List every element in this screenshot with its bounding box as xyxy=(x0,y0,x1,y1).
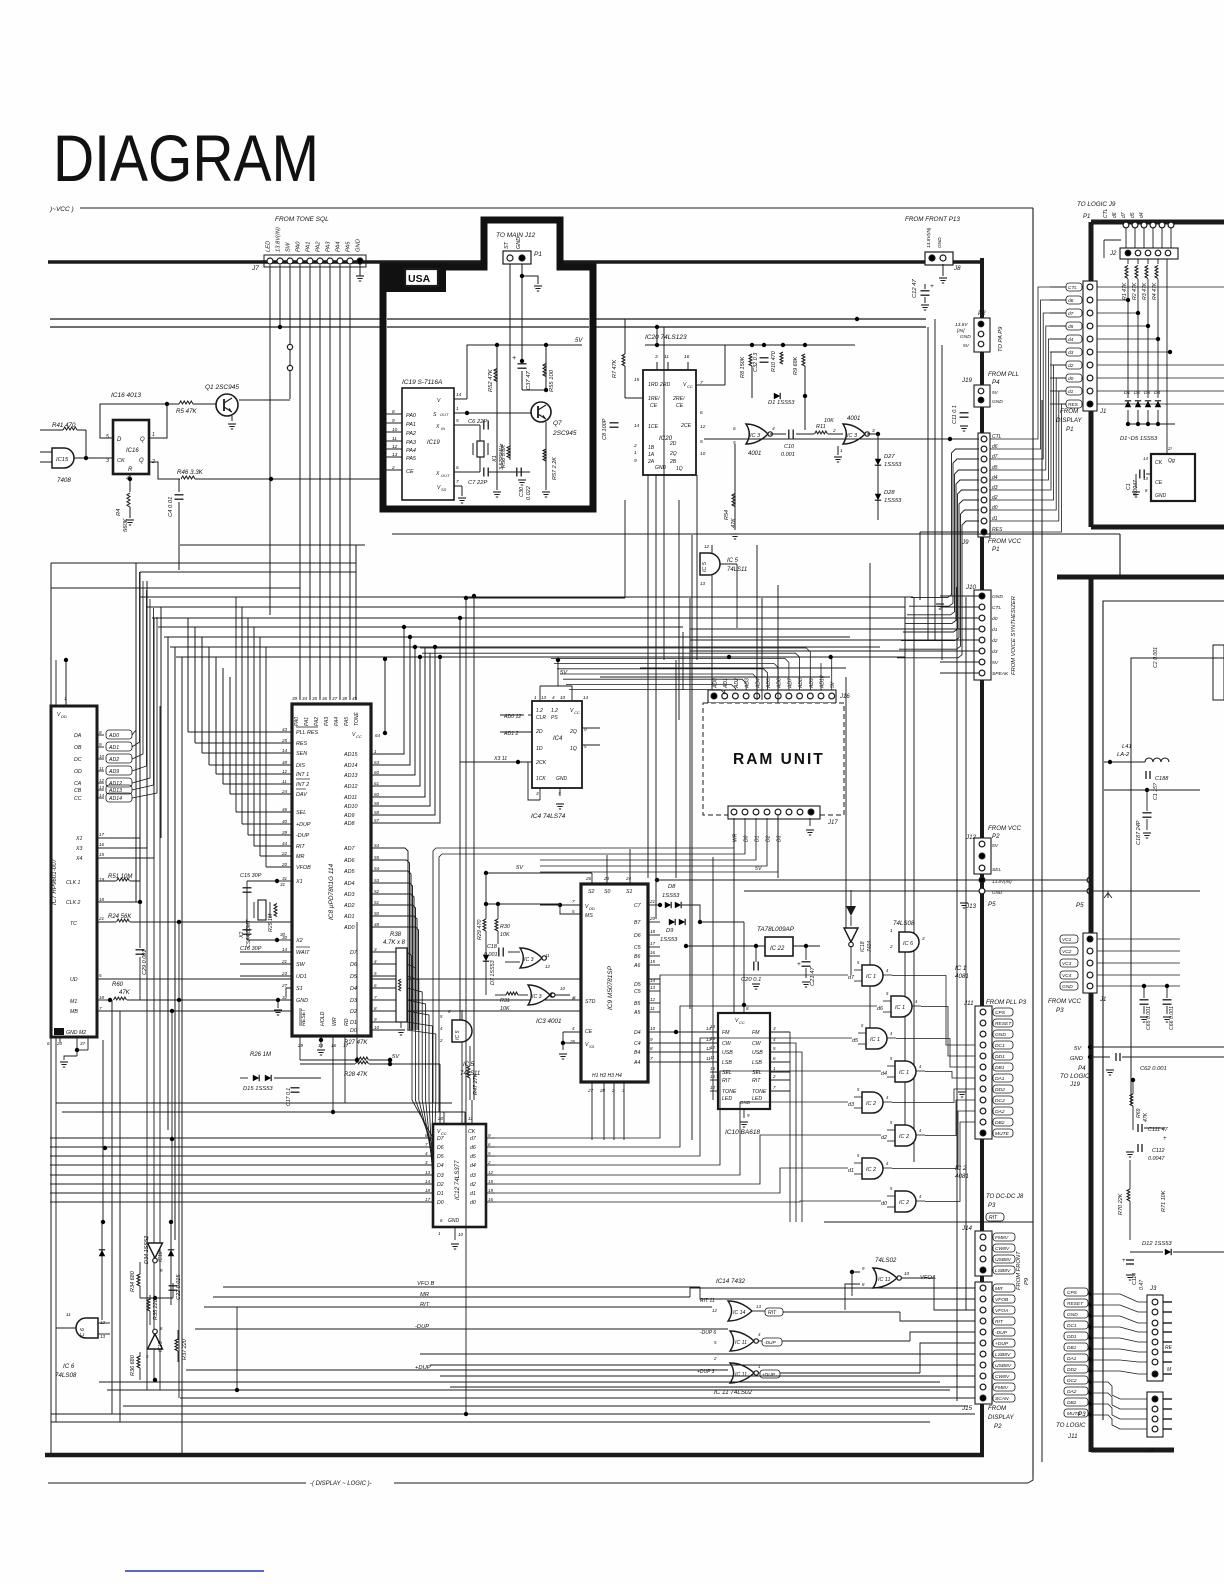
svg-text:D4: D4 xyxy=(350,986,357,992)
svg-text:PA0: PA0 xyxy=(406,413,417,419)
svg-text:6: 6 xyxy=(456,465,459,471)
svg-text:9: 9 xyxy=(99,742,102,747)
svg-text:LSB: LSB xyxy=(752,1060,762,1066)
svg-text:FM: FM xyxy=(752,1030,760,1036)
svg-text:L41: L41 xyxy=(1122,744,1132,750)
svg-text:AD14: AD14 xyxy=(108,796,122,802)
svg-text:AD10: AD10 xyxy=(820,675,826,689)
svg-text:J4: J4 xyxy=(1147,1448,1155,1454)
svg-text:VC1: VC1 xyxy=(1062,937,1072,943)
svg-text:5V: 5V xyxy=(830,681,836,688)
svg-text:2: 2 xyxy=(633,443,637,449)
svg-text:10: 10 xyxy=(904,1271,910,1276)
svg-text:X2: X2 xyxy=(239,932,245,939)
svg-text:DB1: DB1 xyxy=(995,1065,1005,1071)
svg-text:d4: d4 xyxy=(1139,212,1145,218)
svg-text:CW8V: CW8V xyxy=(995,1246,1010,1252)
svg-text:2Q: 2Q xyxy=(669,451,677,457)
svg-text:19: 19 xyxy=(488,1188,494,1193)
svg-text:18: 18 xyxy=(99,897,105,902)
svg-text:DAV: DAV xyxy=(296,792,308,798)
svg-text:J8: J8 xyxy=(953,265,961,272)
svg-text:23: 23 xyxy=(603,876,610,881)
svg-text:C6 22P: C6 22P xyxy=(468,419,487,425)
svg-text:PA3: PA3 xyxy=(326,241,332,252)
svg-text:SS: SS xyxy=(441,487,447,492)
svg-text:D27: D27 xyxy=(884,454,895,460)
svg-text:31: 31 xyxy=(282,876,288,881)
svg-text:13: 13 xyxy=(700,581,706,586)
svg-text:11: 11 xyxy=(99,766,104,771)
svg-text:PA0: PA0 xyxy=(296,241,302,252)
svg-text:4001: 4001 xyxy=(748,451,761,457)
svg-text:9: 9 xyxy=(392,418,395,424)
svg-text:d6: d6 xyxy=(470,1145,476,1151)
svg-text:-DUP: -DUP xyxy=(764,1340,777,1346)
svg-text:21: 21 xyxy=(281,959,288,964)
svg-text:H1 H2 H3 H4: H1 H2 H3 H4 xyxy=(592,1073,622,1079)
svg-text:AD0: AD0 xyxy=(713,678,719,689)
svg-text:A4: A4 xyxy=(633,1060,640,1066)
svg-text:X: X xyxy=(435,471,440,477)
svg-text:5V: 5V xyxy=(392,1054,400,1060)
svg-text:D15 1SS53: D15 1SS53 xyxy=(243,1086,273,1092)
svg-text:IC 5: IC 5 xyxy=(727,558,739,564)
svg-text:Q: Q xyxy=(139,458,144,464)
svg-text:23: 23 xyxy=(281,971,288,976)
svg-text:DC2: DC2 xyxy=(995,1098,1005,1104)
svg-text:RESET: RESET xyxy=(995,1021,1012,1027)
svg-text:C17 0.1: C17 0.1 xyxy=(286,1088,292,1106)
svg-text:D9: D9 xyxy=(666,928,674,934)
svg-text:560K: 560K xyxy=(123,517,129,532)
svg-text:DD1: DD1 xyxy=(1067,1334,1077,1340)
svg-text:2CK: 2CK xyxy=(535,760,547,766)
svg-text:GND: GND xyxy=(556,776,568,782)
svg-text:C5: C5 xyxy=(634,989,641,995)
svg-text:7: 7 xyxy=(558,791,561,796)
svg-text:P2: P2 xyxy=(994,1423,1002,1430)
svg-text:DC1: DC1 xyxy=(995,1043,1005,1049)
svg-text:SEL: SEL xyxy=(296,810,306,816)
svg-text:DA2: DA2 xyxy=(995,1109,1005,1115)
svg-text:d3: d3 xyxy=(470,1173,476,1179)
svg-text:CE: CE xyxy=(1155,480,1163,486)
svg-text:CTL: CTL xyxy=(1068,285,1077,291)
svg-text:13: 13 xyxy=(100,1334,106,1339)
svg-text:R27 47K: R27 47K xyxy=(344,1040,368,1046)
svg-text:FROM VCC: FROM VCC xyxy=(988,538,1022,545)
svg-text:4: 4 xyxy=(772,426,775,432)
svg-text:22: 22 xyxy=(281,851,288,856)
svg-text:GND: GND xyxy=(296,998,308,1004)
svg-text:DD2: DD2 xyxy=(995,1087,1005,1093)
svg-text:D5: D5 xyxy=(634,982,641,988)
svg-text:3: 3 xyxy=(106,458,109,464)
svg-text:9: 9 xyxy=(488,1133,491,1138)
svg-text:1RE/: 1RE/ xyxy=(648,396,660,402)
svg-text:AD15: AD15 xyxy=(343,752,358,758)
svg-text:R9 68K: R9 68K xyxy=(793,356,799,375)
svg-text:AD3: AD3 xyxy=(745,678,751,689)
svg-text:MUTE: MUTE xyxy=(995,1131,1010,1137)
svg-text:M1: M1 xyxy=(70,999,77,1005)
svg-text:C37 47: C37 47 xyxy=(526,371,532,390)
svg-text:16: 16 xyxy=(710,1066,715,1071)
svg-text:10K: 10K xyxy=(500,1006,510,1012)
svg-text:6: 6 xyxy=(773,1056,776,1061)
svg-text:IC18: IC18 xyxy=(158,1251,164,1262)
svg-text:47K: 47K xyxy=(1143,1112,1149,1122)
svg-text:8: 8 xyxy=(374,1006,377,1011)
svg-text:D2: D2 xyxy=(350,1009,357,1015)
svg-text:MR: MR xyxy=(296,854,304,860)
svg-text:D8: D8 xyxy=(668,884,676,890)
svg-text:CC: CC xyxy=(574,710,580,715)
svg-text:C187 24P: C187 24P xyxy=(1136,820,1142,845)
svg-text:AD1: AD1 xyxy=(343,914,355,920)
svg-text:IC 6: IC 6 xyxy=(63,1363,75,1370)
svg-text:P5: P5 xyxy=(988,901,996,908)
svg-text:1: 1 xyxy=(840,448,843,454)
svg-text:RES: RES xyxy=(296,741,307,747)
svg-text:60: 60 xyxy=(374,770,380,775)
svg-text:DA: DA xyxy=(74,733,82,739)
svg-text:3: 3 xyxy=(622,1088,625,1093)
svg-text:74LS08: 74LS08 xyxy=(893,920,915,927)
svg-text:7: 7 xyxy=(374,995,377,1000)
svg-text:17: 17 xyxy=(425,1197,431,1202)
svg-text:R54: R54 xyxy=(724,510,730,520)
svg-text:INT 1: INT 1 xyxy=(296,772,309,778)
svg-text:IC 11: IC 11 xyxy=(735,1340,747,1346)
svg-text:RIT: RIT xyxy=(722,1078,731,1084)
svg-text:RIT: RIT xyxy=(752,1078,761,1084)
svg-text:2: 2 xyxy=(713,1356,717,1361)
svg-text:5V: 5V xyxy=(992,390,999,396)
svg-text:P2: P2 xyxy=(992,833,1000,840)
svg-text:3: 3 xyxy=(374,947,377,952)
svg-text:C7: C7 xyxy=(634,903,642,909)
svg-text:B6: B6 xyxy=(634,954,640,960)
svg-text:12: 12 xyxy=(712,1308,717,1313)
svg-text:-DUP: -DUP xyxy=(995,1330,1008,1336)
svg-text:AD1: AD1 xyxy=(108,745,119,751)
svg-text:D1 1SS53: D1 1SS53 xyxy=(768,400,795,406)
svg-text:PA4: PA4 xyxy=(334,717,340,726)
svg-text:J19: J19 xyxy=(1069,1081,1081,1088)
svg-text:3: 3 xyxy=(773,1026,776,1031)
svg-text:2A: 2A xyxy=(647,459,655,465)
svg-text:CE: CE xyxy=(406,469,414,475)
svg-text:IC 6: IC 6 xyxy=(903,941,914,947)
svg-text:AD9: AD9 xyxy=(108,769,119,775)
svg-text:10K: 10K xyxy=(500,932,510,938)
svg-text:PLL RES: PLL RES xyxy=(296,730,318,736)
svg-text:AD5: AD5 xyxy=(766,678,772,689)
svg-text:4: 4 xyxy=(572,1026,575,1031)
svg-text:2D: 2D xyxy=(535,729,543,735)
svg-text:J11: J11 xyxy=(963,1000,974,1007)
svg-text:1Q: 1Q xyxy=(676,466,683,472)
svg-text:13: 13 xyxy=(392,452,398,458)
svg-text:8: 8 xyxy=(746,1006,749,1011)
svg-text:DA1: DA1 xyxy=(995,1076,1005,1082)
svg-text:D7: D7 xyxy=(437,1136,445,1142)
svg-text:28: 28 xyxy=(599,1088,606,1093)
svg-text:)~VCC ): )~VCC ) xyxy=(49,206,74,213)
svg-text:R7 47K: R7 47K xyxy=(612,359,618,378)
svg-text:14: 14 xyxy=(456,392,462,398)
svg-text:R30: R30 xyxy=(500,924,510,930)
svg-text:S1: S1 xyxy=(296,986,303,992)
svg-text:7408: 7408 xyxy=(57,477,71,484)
svg-text:AD8: AD8 xyxy=(343,821,355,827)
svg-text:11: 11 xyxy=(545,953,550,958)
svg-text:D2: D2 xyxy=(437,1182,444,1188)
svg-text:27: 27 xyxy=(281,983,288,988)
svg-text:D0: D0 xyxy=(437,1200,444,1206)
svg-text:IC16 4013: IC16 4013 xyxy=(111,392,141,399)
svg-text:1SS53: 1SS53 xyxy=(884,462,902,468)
svg-text:CTL: CTL xyxy=(992,605,1002,611)
svg-text:d1: d1 xyxy=(470,1191,476,1197)
svg-text:AD4: AD4 xyxy=(755,678,761,689)
svg-text:PA4: PA4 xyxy=(336,241,342,252)
svg-text:GND: GND xyxy=(992,594,1003,600)
svg-text:X2: X2 xyxy=(295,938,303,944)
svg-text:45: 45 xyxy=(352,696,358,701)
svg-text:AD2: AD2 xyxy=(108,757,119,763)
svg-text:d1: d1 xyxy=(992,627,998,633)
svg-text:P1: P1 xyxy=(1083,214,1090,220)
svg-text:FROM VCC: FROM VCC xyxy=(1048,998,1082,1005)
svg-text:34: 34 xyxy=(302,696,308,701)
svg-text:OUT: OUT xyxy=(441,473,450,478)
svg-text:d3: d3 xyxy=(848,1102,854,1108)
svg-text:38: 38 xyxy=(342,696,348,701)
svg-text:d1: d1 xyxy=(848,1168,854,1174)
svg-text:63: 63 xyxy=(374,760,380,765)
svg-text:P5: P5 xyxy=(1076,902,1084,909)
svg-text:OB: OB xyxy=(74,745,82,751)
svg-text:6: 6 xyxy=(488,1142,491,1147)
svg-text:8: 8 xyxy=(392,409,395,415)
svg-text:DD2: DD2 xyxy=(1067,1367,1077,1373)
svg-text:7: 7 xyxy=(99,1006,102,1011)
svg-text:IC 2: IC 2 xyxy=(866,1167,876,1173)
svg-text:VFOB: VFOB xyxy=(296,865,311,871)
svg-text:18: 18 xyxy=(99,995,105,1000)
svg-text:DA2: DA2 xyxy=(1067,1389,1077,1395)
svg-text:UD: UD xyxy=(70,977,78,983)
svg-text:R38: R38 xyxy=(390,932,402,938)
svg-text:MB: MB xyxy=(70,1009,78,1015)
svg-text:8: 8 xyxy=(650,1046,653,1051)
svg-text:IC 3: IC 3 xyxy=(750,433,761,439)
svg-text:10K: 10K xyxy=(824,418,834,424)
svg-text:6: 6 xyxy=(733,426,736,432)
svg-text:USA: USA xyxy=(408,273,431,285)
svg-text:13: 13 xyxy=(710,1036,715,1041)
svg-text:7: 7 xyxy=(650,1056,653,1061)
svg-text:AD10: AD10 xyxy=(343,804,358,810)
svg-text:d1: d1 xyxy=(1068,389,1074,395)
svg-text:J2: J2 xyxy=(1109,251,1117,257)
svg-text:24: 24 xyxy=(281,789,288,794)
svg-text:AD3: AD3 xyxy=(343,892,355,898)
svg-text:RESET: RESET xyxy=(301,1008,307,1026)
svg-text:d2: d2 xyxy=(470,1182,476,1188)
svg-text:+DUP: +DUP xyxy=(296,822,311,828)
svg-text:IC 5: IC 5 xyxy=(702,561,708,572)
svg-text:20: 20 xyxy=(281,862,288,867)
svg-text:2Q: 2Q xyxy=(569,729,577,735)
svg-text:d5: d5 xyxy=(852,1038,859,1044)
svg-text:d5: d5 xyxy=(470,1154,476,1160)
svg-text:R1 47K: R1 47K xyxy=(1122,282,1128,300)
svg-text:LSB: LSB xyxy=(722,1060,732,1066)
svg-text:GND: GND xyxy=(1070,1056,1083,1062)
svg-text:20: 20 xyxy=(649,916,656,921)
svg-text:1SS53: 1SS53 xyxy=(884,498,902,504)
svg-text:18: 18 xyxy=(650,929,656,934)
svg-text:DD1: DD1 xyxy=(995,1054,1005,1060)
svg-text:TO LOGIC: TO LOGIC xyxy=(1060,1073,1090,1080)
svg-text:GND: GND xyxy=(1155,493,1167,499)
svg-text:PA3: PA3 xyxy=(406,440,417,446)
svg-text:7: 7 xyxy=(456,479,459,485)
svg-text:1: 1 xyxy=(534,695,537,700)
svg-text:D0: D0 xyxy=(350,1028,357,1034)
svg-text:2D: 2D xyxy=(669,441,677,447)
svg-text:5: 5 xyxy=(99,973,102,978)
svg-text:GND: GND xyxy=(937,237,943,248)
svg-text:C20 0.1: C20 0.1 xyxy=(741,977,761,983)
svg-text:39: 39 xyxy=(282,830,288,835)
svg-text:IC 2: IC 2 xyxy=(866,1101,876,1107)
svg-text:TA78L009AP: TA78L009AP xyxy=(757,926,795,933)
svg-text:IC 3: IC 3 xyxy=(847,433,858,439)
svg-text:LED: LED xyxy=(722,1096,732,1102)
svg-text:CLK 2: CLK 2 xyxy=(66,900,81,906)
svg-text:C112: C112 xyxy=(1152,1148,1165,1154)
svg-text:PA5: PA5 xyxy=(344,717,350,726)
svg-text:51: 51 xyxy=(374,900,380,905)
svg-text:d7: d7 xyxy=(1121,212,1127,218)
svg-text:12: 12 xyxy=(100,1320,106,1325)
svg-text:Q1 2SC945: Q1 2SC945 xyxy=(205,384,239,391)
svg-text:-DUP 6: -DUP 6 xyxy=(700,1330,716,1336)
svg-text:SPEAK: SPEAK xyxy=(992,671,1009,677)
svg-text:R69: R69 xyxy=(1136,1108,1142,1118)
svg-text:0.022: 0.022 xyxy=(526,486,532,500)
svg-text:10: 10 xyxy=(560,986,565,991)
svg-text:IC 3: IC 3 xyxy=(532,994,542,1000)
svg-text:C18: C18 xyxy=(487,944,497,950)
svg-text:D28: D28 xyxy=(884,490,895,496)
svg-text:AD0: AD0 xyxy=(343,925,355,931)
svg-text:RESET: RESET xyxy=(1067,1301,1084,1307)
svg-text:47K: 47K xyxy=(731,518,737,528)
svg-text:1CE: 1CE xyxy=(648,424,659,430)
svg-text:30: 30 xyxy=(280,932,286,937)
svg-text:AD13: AD13 xyxy=(343,773,358,779)
svg-text:5V: 5V xyxy=(516,865,524,871)
svg-text:27: 27 xyxy=(587,1088,594,1093)
svg-text:P3: P3 xyxy=(1056,1007,1064,1014)
svg-text:5: 5 xyxy=(374,971,377,976)
svg-text:CE: CE xyxy=(650,403,658,409)
svg-text:OUT: OUT xyxy=(440,412,449,417)
svg-text:6: 6 xyxy=(573,995,576,1000)
svg-text:+DUP: +DUP xyxy=(762,1372,776,1378)
svg-text:VFO B: VFO B xyxy=(417,1281,435,1287)
svg-text:X4: X4 xyxy=(75,856,82,862)
svg-text:J13: J13 xyxy=(965,903,977,910)
svg-text:IC18: IC18 xyxy=(860,941,866,952)
svg-text:d6: d6 xyxy=(1112,212,1118,218)
svg-text:J16: J16 xyxy=(839,694,850,700)
svg-text:15: 15 xyxy=(650,959,656,964)
svg-text:B7: B7 xyxy=(634,920,641,926)
svg-text:26: 26 xyxy=(585,876,592,881)
svg-text:3: 3 xyxy=(872,428,875,434)
svg-text:58: 58 xyxy=(374,810,380,815)
svg-text:C4 0.01: C4 0.01 xyxy=(168,497,174,517)
svg-text:R52 47K: R52 47K xyxy=(488,368,494,392)
svg-text:AD1: AD1 xyxy=(723,678,729,689)
svg-text:DIAGRAM: DIAGRAM xyxy=(53,121,319,195)
svg-text:3: 3 xyxy=(655,354,658,360)
svg-text:7: 7 xyxy=(572,899,575,904)
svg-text:8: 8 xyxy=(425,1133,428,1138)
svg-text:4: 4 xyxy=(374,959,377,964)
svg-text:WR: WR xyxy=(733,833,739,842)
svg-text:LSB8V: LSB8V xyxy=(995,1352,1011,1358)
svg-text:74LS02: 74LS02 xyxy=(875,1257,897,1264)
svg-text:12: 12 xyxy=(545,964,550,969)
svg-text:C65 0.001: C65 0.001 xyxy=(1146,1006,1152,1030)
svg-text:2: 2 xyxy=(832,428,836,434)
svg-text:Q: Q xyxy=(140,437,145,443)
svg-text:1Q: 1Q xyxy=(570,746,577,752)
svg-text:X1: X1 xyxy=(75,836,82,842)
svg-text:IN: IN xyxy=(441,426,445,431)
svg-text:5: 5 xyxy=(572,909,575,914)
svg-text:16: 16 xyxy=(488,1197,494,1202)
svg-text:d5: d5 xyxy=(1130,212,1136,218)
svg-text:C62 0.001: C62 0.001 xyxy=(1140,1066,1167,1072)
svg-text:C5: C5 xyxy=(634,945,641,951)
svg-text:10: 10 xyxy=(710,1085,715,1090)
svg-text:Q7: Q7 xyxy=(553,420,562,427)
svg-text:PA5: PA5 xyxy=(406,456,417,462)
svg-text:MR: MR xyxy=(995,1286,1003,1292)
svg-text:GND: GND xyxy=(992,399,1003,405)
svg-text:SS: SS xyxy=(589,1044,595,1049)
svg-text:VC2: VC2 xyxy=(1062,949,1072,955)
svg-text:4.7K x 8: 4.7K x 8 xyxy=(383,940,406,946)
svg-text:C10: C10 xyxy=(784,444,795,450)
svg-text:FROM: FROM xyxy=(1060,408,1079,415)
svg-text:DB2: DB2 xyxy=(995,1120,1005,1126)
svg-text:FROM FRONT P13: FROM FRONT P13 xyxy=(905,216,960,223)
svg-text:J17: J17 xyxy=(827,820,838,826)
svg-text:37: 37 xyxy=(80,1041,86,1046)
svg-text:+: + xyxy=(797,961,801,968)
svg-text:2: 2 xyxy=(772,1074,776,1079)
